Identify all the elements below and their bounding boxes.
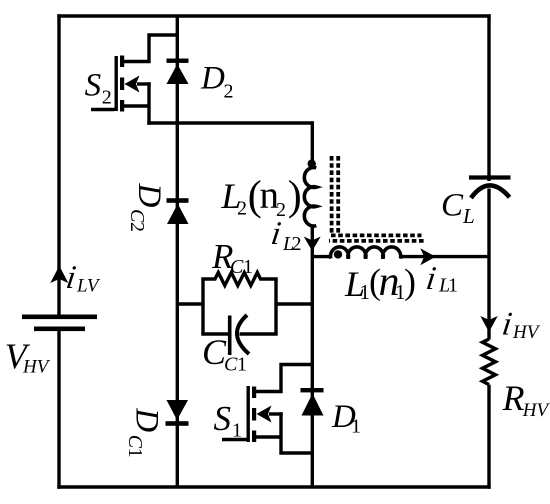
label L_1(n_1) [344,259,416,305]
transistor S2 gate bar [115,56,118,111]
svg-text:D: D [200,60,225,96]
snubber lead left [177,302,204,305]
wire mid branch x=312 below L2 [311,225,314,488]
transistor S1 body arrow [257,406,272,423]
snubber box right side [274,279,277,335]
label S_1 [214,399,243,442]
svg-text:1: 1 [237,354,247,376]
wire bottom bus [57,485,490,488]
transformer core dashed inner [331,156,422,235]
label D_2 [200,60,234,102]
transistor S2 source wire [123,82,149,124]
svg-text:HV: HV [512,322,541,343]
label C_C1 [202,332,247,376]
battery VHV [22,315,97,332]
svg-text:): ) [404,262,416,302]
label i_L2 [269,215,302,255]
wire mid branch x=312 upper [311,121,314,167]
svg-text:2: 2 [292,233,302,255]
wire L1 to right bus [399,255,489,258]
svg-text:2: 2 [237,198,247,220]
capacitor CC1 bottom side leads [201,332,277,335]
wire left bus lower [57,330,60,489]
transistor S1 drain wire [255,365,312,392]
label R_C1 [211,237,253,278]
svg-text:HV: HV [522,400,550,421]
snubber box left side [201,279,204,335]
transistor S1 channel segments [252,387,256,443]
transistor S2 gate lead [91,108,115,111]
svg-text:R: R [502,378,525,418]
diode DC2 [167,198,189,224]
svg-text:C: C [224,354,238,376]
svg-text:S: S [214,399,232,438]
label L_2(n_2) [220,174,301,222]
wire clamp branch vertical x=177 [176,16,179,487]
wire L1 left stub [312,255,331,258]
resistor RHV [483,339,496,385]
transformer core dashed outer [329,239,425,243]
transistor S1 source wire [255,412,312,453]
svg-text:C: C [441,187,464,223]
svg-text:C: C [124,435,146,449]
transistor S2 body arrow [125,76,140,93]
current arrow iL2 [304,237,321,252]
label S_2 [85,67,112,108]
transistor S1 gate lead [222,438,247,441]
resistor RC1 top side with zigzag [201,273,277,286]
label R_HV [502,378,550,421]
current arrow iL1 [420,248,435,265]
label D_C2 (rotated) [126,183,167,233]
svg-text:D: D [129,407,165,432]
current arrow iLV [50,266,68,283]
transistor S2 arrow wire [137,82,151,85]
svg-text:2: 2 [102,87,112,109]
inductor L2 winding [304,167,316,226]
diode DC1 [166,400,189,426]
svg-text:L: L [462,204,475,228]
capacitor CC1 plates [230,315,249,355]
svg-text:1: 1 [124,448,146,458]
svg-text:HV: HV [22,357,51,378]
svg-text:S: S [85,67,102,103]
svg-text:2: 2 [224,81,234,103]
svg-text:D: D [131,183,167,208]
label D_1 [331,399,361,438]
svg-text:1: 1 [232,420,242,442]
current arrow iHV [480,316,497,332]
svg-text:C: C [126,209,148,223]
snubber lead right [275,302,312,305]
transistor S1 gate bar [247,386,250,442]
inductor L1 winding [331,247,401,259]
wire left bus upper [57,14,60,316]
inductor L2 polarity dot [308,160,316,168]
label i_L1 [424,260,458,297]
wire right bus upper [487,14,490,181]
wire top bus [57,14,490,17]
svg-text:i: i [424,260,438,297]
svg-text:2: 2 [126,222,148,232]
transistor S2 drain wire [123,35,177,62]
svg-text:LV: LV [76,276,101,297]
label i_LV [64,259,101,296]
svg-text:1: 1 [448,275,458,297]
wire S2 source to mid node y=123 [147,121,314,124]
label i_HV [500,306,541,343]
wire right bus lower [487,189,490,489]
svg-text:1: 1 [351,416,361,438]
inductor L1 polarity dot [334,250,342,258]
label D_C1 (rotated) [124,407,165,458]
transistor S1 arrow wire [269,412,283,415]
label C_L [441,187,475,228]
label V_HV [5,336,51,378]
transistor S2 channel segments [120,56,124,112]
diode D1 [301,388,324,416]
svg-text:): ) [288,174,302,220]
diode D2 [167,59,189,85]
svg-text:i: i [269,215,283,252]
svg-text:1: 1 [243,256,253,278]
svg-text:C: C [230,256,244,278]
capacitor CL [469,178,511,199]
